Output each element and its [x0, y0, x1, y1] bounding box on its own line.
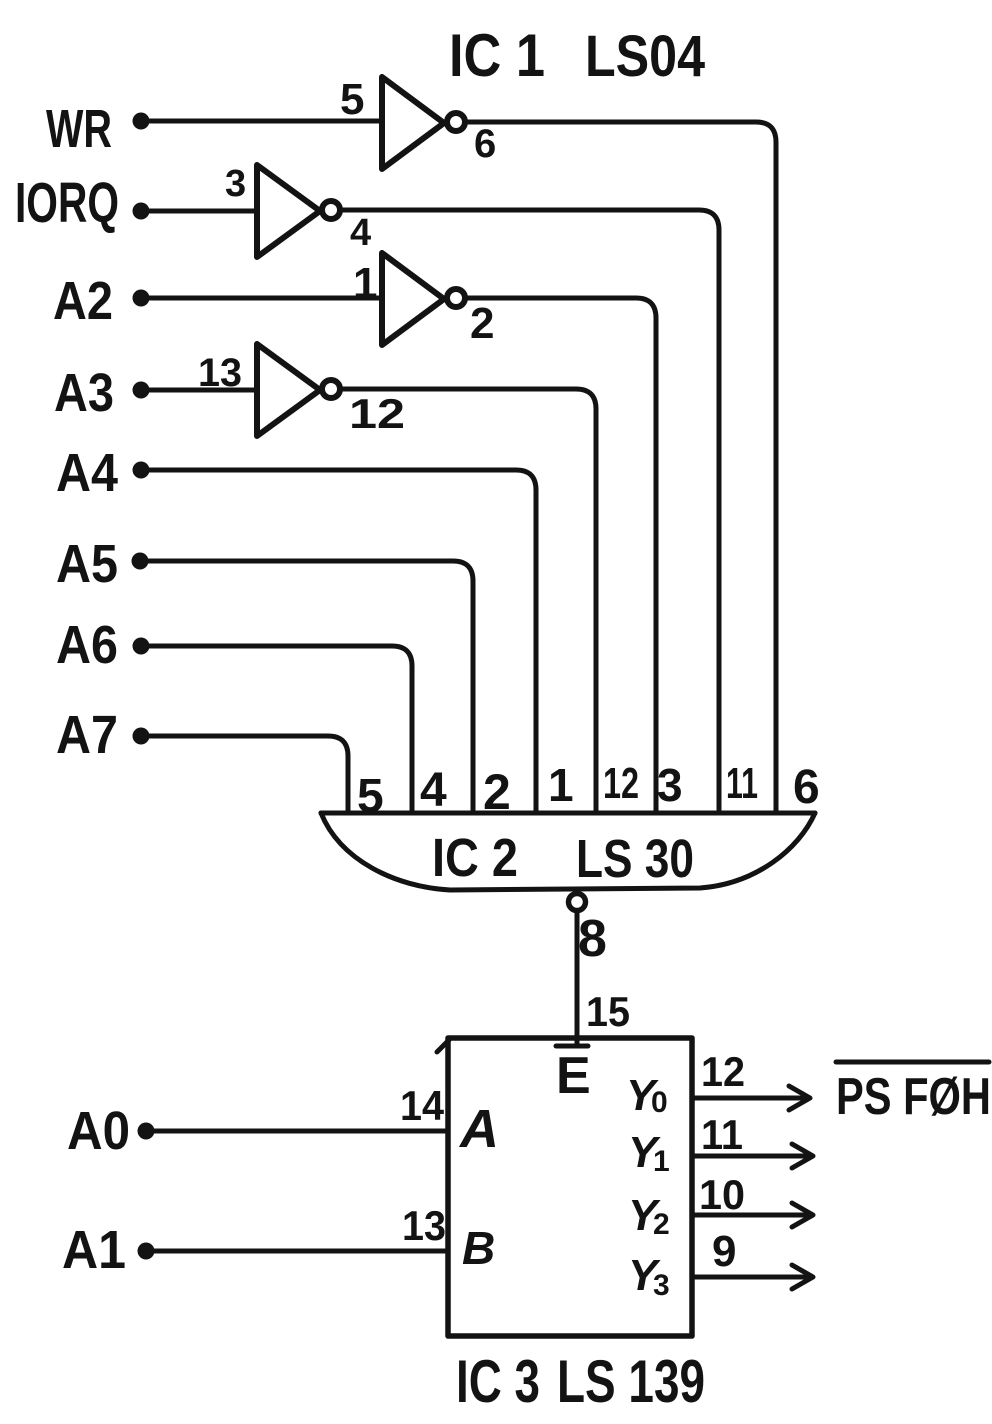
wire Y1 output arrow: [692, 1144, 813, 1168]
node A6 terminal dot: [133, 638, 150, 655]
svg-text:8: 8: [578, 910, 607, 968]
svg-text:3: 3: [653, 1269, 670, 1302]
svg-text:A5: A5: [56, 534, 118, 594]
svg-text:12: 12: [349, 390, 405, 437]
svg-text:A1: A1: [62, 1220, 126, 1280]
svg-text:IC 3: IC 3: [456, 1348, 540, 1415]
wire A2 input: [141, 296, 382, 301]
svg-text:6: 6: [474, 122, 496, 166]
NAND gate IC2 LS30 body: [321, 811, 815, 816]
svg-text:A0: A0: [67, 1101, 130, 1161]
node A0 terminal dot: [138, 1123, 155, 1140]
inverter U1B (IORQ): [257, 165, 320, 257]
svg-text:B: B: [462, 1222, 495, 1274]
svg-text:A: A: [458, 1099, 499, 1159]
svg-text:12: 12: [603, 759, 639, 808]
node A1 terminal dot: [138, 1243, 155, 1260]
svg-text:A2: A2: [53, 271, 113, 331]
bubble U1C output: [447, 289, 465, 307]
svg-text:9: 9: [712, 1227, 736, 1276]
svg-text:6: 6: [793, 761, 820, 814]
svg-text:15: 15: [586, 988, 630, 1035]
wire A2-inverted to LS30 pin3: [467, 298, 656, 813]
bubble U1A output: [447, 113, 465, 131]
svg-text:1: 1: [353, 259, 377, 308]
wire WR-inverted to LS30 pin6: [467, 122, 776, 813]
svg-text:3: 3: [225, 163, 246, 205]
svg-text:A3: A3: [54, 363, 114, 423]
Y3 output label: [628, 1251, 670, 1302]
svg-text:5: 5: [340, 75, 364, 124]
node A3 terminal dot: [133, 382, 150, 399]
svg-text:LS 139: LS 139: [557, 1348, 705, 1415]
node A5 terminal dot: [132, 553, 149, 570]
bubble U1B output: [322, 201, 340, 219]
svg-text:3: 3: [657, 759, 683, 811]
wire A6 to LS30 pin4: [141, 646, 412, 813]
svg-text:11: 11: [701, 1111, 743, 1158]
svg-text:1: 1: [653, 1145, 670, 1178]
svg-text:4: 4: [350, 212, 371, 254]
Y2 output label: [628, 1191, 670, 1241]
svg-text:LS04: LS04: [585, 24, 705, 89]
svg-text:WR: WR: [46, 99, 112, 159]
svg-text:A4: A4: [56, 443, 118, 503]
svg-text:13: 13: [402, 1202, 446, 1249]
wire Y2 output arrow: [692, 1203, 813, 1227]
node A4 terminal dot: [133, 462, 150, 479]
node A7 terminal dot: [133, 728, 150, 745]
svg-text:A6: A6: [56, 615, 118, 675]
svg-text:1: 1: [548, 759, 574, 811]
svg-text:A7: A7: [56, 705, 118, 765]
svg-text:0: 0: [651, 1086, 668, 1119]
wire IORQ-inverted to LS30 pin11: [342, 210, 719, 813]
wire A3-inverted to LS30 pin12: [342, 389, 596, 813]
inverter U1A (WR): [382, 77, 444, 169]
wire A1 to LS139 B: [146, 1249, 448, 1254]
bubble U1D output: [322, 380, 340, 398]
svg-text:13: 13: [198, 351, 242, 395]
svg-text:12: 12: [701, 1048, 745, 1095]
wire A3 input: [141, 388, 257, 393]
corner overshoot stroke: [437, 1040, 449, 1052]
wire WR input: [141, 119, 382, 124]
wire A4 to LS30 pin1: [141, 470, 536, 813]
svg-text:PS FØH: PS FØH: [836, 1068, 991, 1126]
wire IORQ input: [141, 209, 257, 214]
svg-text:4: 4: [420, 764, 447, 817]
node A2 terminal dot: [133, 290, 150, 307]
svg-text:14: 14: [400, 1082, 445, 1129]
wire A0 to LS139 A: [146, 1129, 448, 1134]
wire LS30 output to LS139 E: [575, 911, 580, 1043]
svg-text:2: 2: [470, 299, 494, 348]
svg-text:IC 2: IC 2: [432, 828, 518, 888]
node WR terminal dot: [133, 113, 150, 130]
title IC1 LS04: [449, 22, 705, 89]
svg-text:11: 11: [726, 759, 758, 808]
wire A5 to LS30 pin2: [140, 561, 473, 813]
bubble IC2 output: [569, 894, 586, 911]
svg-text:10: 10: [699, 1171, 745, 1218]
wire Y0 output arrow: [692, 1086, 810, 1110]
svg-text:IORQ: IORQ: [15, 171, 119, 235]
IC3 LS139 caption: [456, 1348, 705, 1415]
inverter U1C (A2): [382, 253, 444, 345]
decoder IC3 LS139 body: [448, 1038, 692, 1336]
Y0 output label: [626, 1071, 668, 1120]
wire Y3 output arrow: [692, 1265, 813, 1289]
svg-text:E: E: [556, 1047, 591, 1105]
Y1 output label: [628, 1128, 670, 1178]
svg-text:LS 30: LS 30: [576, 829, 694, 889]
wire A7 to LS30 pin5: [141, 736, 348, 813]
svg-text:IC 1: IC 1: [449, 22, 545, 89]
svg-text:2: 2: [653, 1208, 670, 1241]
inverter U1D (A3): [257, 344, 320, 436]
node IORQ terminal dot: [133, 203, 150, 220]
